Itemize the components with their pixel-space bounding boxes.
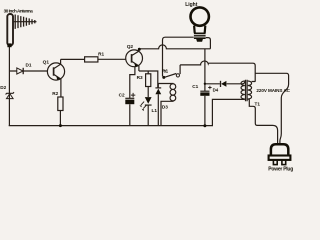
svg-text:Power Plug: Power Plug <box>268 167 293 173</box>
svg-text:30 inch Antenna: 30 inch Antenna <box>4 8 34 13</box>
svg-text:D1: D1 <box>26 63 32 68</box>
svg-text:D3: D3 <box>162 105 168 110</box>
svg-text:Q2: Q2 <box>127 44 134 50</box>
svg-text:R3: R3 <box>137 75 143 80</box>
svg-text:D2: D2 <box>0 85 6 90</box>
svg-text:T1: T1 <box>255 102 261 107</box>
svg-text:L1: L1 <box>152 108 158 113</box>
svg-text:D4: D4 <box>213 88 219 93</box>
svg-text:R1: R1 <box>98 52 104 57</box>
svg-text:R2: R2 <box>52 91 58 96</box>
svg-text:C1: C1 <box>192 84 198 89</box>
svg-text:220V MAINS AC: 220V MAINS AC <box>256 88 290 93</box>
svg-text:Light: Light <box>185 2 198 8</box>
svg-text:C2: C2 <box>119 92 125 97</box>
svg-text:RY1: RY1 <box>162 68 169 73</box>
svg-text:Q1: Q1 <box>43 59 50 65</box>
